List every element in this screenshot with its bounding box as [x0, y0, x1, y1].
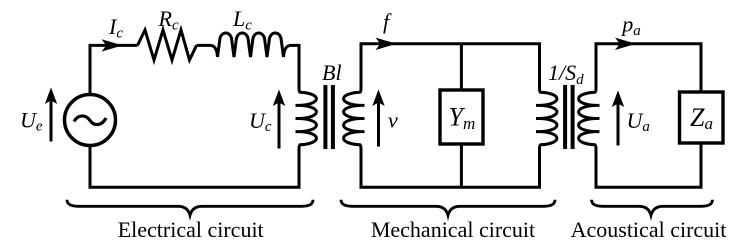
svg-text:v: v [388, 108, 398, 133]
svg-text:Mechanical circuit: Mechanical circuit [371, 217, 535, 242]
svg-text:Bl: Bl [322, 60, 342, 85]
svg-text:Electrical circuit: Electrical circuit [118, 217, 264, 242]
svg-text:Acoustical circuit: Acoustical circuit [571, 217, 727, 242]
